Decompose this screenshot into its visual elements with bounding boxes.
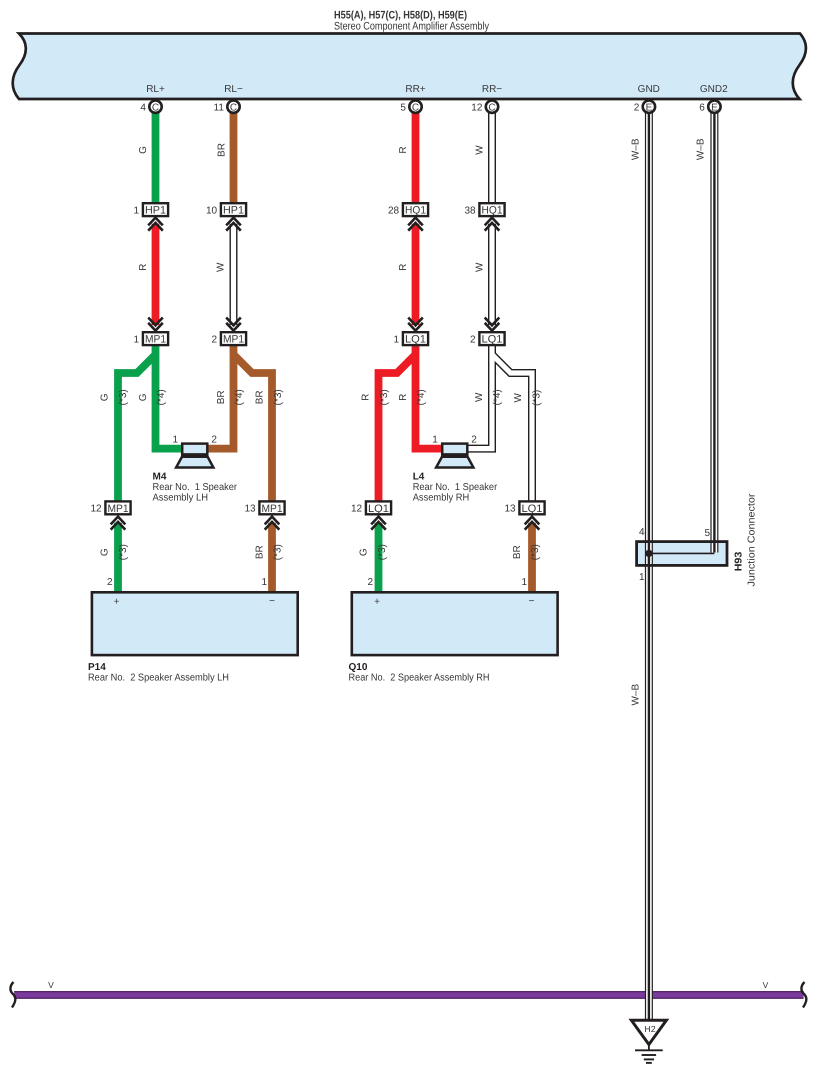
label Q10 bbox=[349, 662, 490, 684]
svg-text:HQ1: HQ1 bbox=[482, 205, 503, 217]
svg-text:H2: H2 bbox=[644, 1024, 655, 1034]
label L4 bbox=[413, 472, 498, 504]
label BR (*3) lower Q10 bbox=[512, 544, 541, 560]
connector LQ1 pin 13 bbox=[504, 501, 544, 514]
svg-text:C: C bbox=[488, 102, 495, 113]
wire R from LQ1 pin1 to speaker L4 pin1 bbox=[416, 345, 445, 449]
wire G from MP1 pin12 to P14 pin2 bbox=[114, 523, 122, 592]
svg-text:W: W bbox=[215, 262, 226, 272]
svg-text:Q10: Q10 bbox=[349, 662, 368, 673]
svg-text:GND2: GND2 bbox=[700, 84, 728, 95]
svg-text:(*3): (*3) bbox=[377, 544, 388, 560]
connector circle C pin 11 (RL-) bbox=[214, 101, 240, 114]
svg-text:RR+: RR+ bbox=[405, 84, 425, 95]
label W-B on GND2 wire bbox=[696, 138, 707, 160]
wire W-B from amplifier GND pin2 to ground H2 bbox=[645, 113, 653, 1022]
connector HP1 pin 1 bbox=[134, 203, 169, 216]
svg-text:Assembly RH: Assembly RH bbox=[413, 492, 470, 503]
stereo component amplifier assembly H55/H57/H58/H59 band bbox=[13, 34, 806, 100]
svg-text:+: + bbox=[114, 596, 120, 607]
wire W-B from amplifier GND2 pin6 to junction connector H93 pin5 bbox=[710, 113, 718, 553]
svg-text:(*3): (*3) bbox=[118, 544, 129, 560]
svg-text:+: + bbox=[374, 596, 380, 607]
chevron above LQ1 pin1 bbox=[408, 318, 423, 331]
wire R branch (*3) to LQ1 pin12 bbox=[379, 355, 416, 502]
svg-text:RR−: RR− bbox=[482, 84, 502, 95]
svg-text:(*3): (*3) bbox=[531, 390, 542, 406]
label R (*4) main bbox=[398, 389, 427, 405]
svg-text:5: 5 bbox=[400, 103, 406, 114]
svg-text:(*3): (*3) bbox=[379, 389, 390, 405]
svg-text:R: R bbox=[398, 394, 409, 401]
label W mid col4 bbox=[474, 262, 485, 272]
connector HP1 pin 10 bbox=[206, 203, 246, 216]
wire BR from amplifier RL- pin11 to HP1 bbox=[230, 113, 238, 204]
label M4 bbox=[153, 472, 238, 504]
svg-text:BR: BR bbox=[255, 390, 266, 404]
label BR on RL- wire bbox=[216, 143, 227, 157]
svg-text:G: G bbox=[100, 548, 111, 556]
label R mid col3 bbox=[398, 264, 409, 271]
svg-text:2: 2 bbox=[367, 577, 373, 588]
svg-text:1: 1 bbox=[134, 335, 140, 346]
amplifier pin labels RL+/RL-/RR+/RR-/GND/GND2 bbox=[146, 84, 728, 95]
svg-text:GND: GND bbox=[638, 84, 660, 95]
wire R from amplifier RR+ pin5 to HQ1 bbox=[412, 113, 420, 204]
connector MP1 pin 12 bbox=[90, 501, 130, 514]
svg-text:Rear No. 2 Speaker Assembly R: Rear No. 2 Speaker Assembly RH bbox=[349, 673, 490, 684]
svg-text:2: 2 bbox=[107, 577, 113, 588]
svg-text:LQ1: LQ1 bbox=[522, 503, 543, 515]
svg-text:5: 5 bbox=[705, 528, 711, 539]
svg-text:2: 2 bbox=[211, 435, 217, 446]
svg-text:LQ1: LQ1 bbox=[405, 334, 426, 346]
chevron above MP1 pin2 bbox=[226, 318, 241, 331]
label G (*3) lower Q10 bbox=[359, 544, 388, 560]
svg-text:4: 4 bbox=[140, 103, 146, 114]
svg-text:Rear No. 2 Speaker Assembly L: Rear No. 2 Speaker Assembly LH bbox=[88, 673, 229, 684]
svg-text:12: 12 bbox=[90, 504, 102, 515]
svg-text:G: G bbox=[138, 393, 149, 401]
svg-text:BR: BR bbox=[512, 545, 523, 559]
speaker L4 Rear No.1 Speaker Assembly RH bbox=[432, 434, 477, 467]
svg-text:(*4): (*4) bbox=[492, 389, 503, 405]
svg-text:Junction Connector: Junction Connector bbox=[747, 493, 758, 587]
wire BR from MP1 pin2 to speaker M4 pin2 bbox=[206, 345, 234, 449]
svg-text:MP1: MP1 bbox=[108, 503, 129, 515]
connector circle E pin 2 (GND) bbox=[634, 101, 655, 114]
svg-text:2: 2 bbox=[471, 435, 477, 446]
svg-text:(*3): (*3) bbox=[530, 544, 541, 560]
label R mid col1 bbox=[138, 264, 149, 271]
connector circle C pin 4 (RL+) bbox=[140, 101, 161, 114]
speaker box Q10 Rear No.2 Speaker Assembly RH bbox=[352, 577, 558, 655]
svg-text:6: 6 bbox=[699, 103, 705, 114]
svg-text:Assembly LH: Assembly LH bbox=[153, 492, 209, 503]
svg-text:BR: BR bbox=[216, 143, 227, 157]
wire G from MP1 pin1 to speaker M4 pin1 bbox=[156, 345, 185, 449]
svg-text:M4: M4 bbox=[153, 472, 167, 483]
label BR (*3) lower bbox=[254, 544, 283, 560]
chevron below MP1 pin12 bbox=[111, 517, 126, 530]
svg-text:LQ1: LQ1 bbox=[482, 334, 503, 346]
connector LQ1 pin 12 bbox=[351, 501, 391, 514]
svg-text:HP1: HP1 bbox=[223, 205, 244, 217]
svg-text:R: R bbox=[398, 146, 409, 153]
svg-text:W: W bbox=[474, 262, 485, 272]
svg-text:G: G bbox=[359, 548, 370, 556]
junction connector H93 bbox=[637, 527, 727, 583]
label P14 bbox=[88, 662, 229, 684]
svg-text:BR: BR bbox=[254, 545, 265, 559]
svg-text:Stereo Component Amplifier Ass: Stereo Component Amplifier Assembly bbox=[334, 21, 489, 33]
violet shield band V bbox=[10, 980, 806, 1008]
wire R from HQ1 to LQ1 bbox=[412, 224, 420, 325]
wire BR from MP1 pin13 to P14 pin1 bbox=[268, 523, 276, 592]
svg-text:W: W bbox=[474, 145, 485, 155]
svg-text:V: V bbox=[763, 980, 769, 990]
svg-text:11: 11 bbox=[214, 103, 225, 114]
label W mid col2 bbox=[215, 262, 226, 272]
svg-text:4: 4 bbox=[639, 527, 645, 538]
svg-text:(*4): (*4) bbox=[234, 389, 245, 405]
svg-text:2: 2 bbox=[212, 335, 218, 346]
svg-text:1: 1 bbox=[173, 434, 179, 445]
svg-text:−: − bbox=[529, 596, 535, 607]
ground H2 bbox=[631, 1020, 666, 1063]
connector MP1 pin 1 bbox=[134, 332, 169, 345]
svg-text:2: 2 bbox=[634, 103, 640, 114]
svg-text:2: 2 bbox=[470, 335, 476, 346]
svg-text:W–B: W–B bbox=[631, 683, 642, 705]
wire G branch (*3) to MP1 pin12 bbox=[118, 355, 156, 502]
wire BR from LQ1 pin13 to Q10 pin1 bbox=[528, 523, 536, 592]
svg-text:MP1: MP1 bbox=[223, 334, 244, 346]
svg-text:(*3): (*3) bbox=[273, 389, 284, 405]
label W-B on GND wire lower bbox=[631, 683, 642, 705]
svg-text:E: E bbox=[711, 102, 718, 113]
label W (*4) main bbox=[474, 389, 503, 405]
svg-text:E: E bbox=[646, 102, 653, 113]
connector circle E pin 6 (GND2) bbox=[699, 101, 720, 114]
svg-text:W: W bbox=[513, 393, 524, 403]
chevron below HP1 pin10 bbox=[226, 218, 241, 231]
wire R from HP1 to MP1 bbox=[152, 224, 160, 325]
wire G from amplifier RL+ pin4 to HP1 bbox=[152, 113, 160, 204]
svg-text:MP1: MP1 bbox=[145, 334, 166, 346]
svg-text:BR: BR bbox=[216, 390, 227, 404]
svg-text:1: 1 bbox=[639, 572, 645, 583]
label G (*3) branch bbox=[100, 389, 129, 405]
svg-text:1: 1 bbox=[261, 577, 267, 588]
svg-text:G: G bbox=[138, 146, 149, 154]
svg-text:13: 13 bbox=[244, 504, 256, 515]
connector circle C pin 5 (RR+) bbox=[400, 101, 421, 114]
svg-text:(*4): (*4) bbox=[416, 389, 427, 405]
svg-text:−: − bbox=[269, 596, 275, 607]
svg-text:1: 1 bbox=[432, 434, 438, 445]
label R on RR+ wire bbox=[398, 146, 409, 153]
svg-text:1: 1 bbox=[521, 577, 527, 588]
svg-text:RL+: RL+ bbox=[146, 84, 165, 95]
chevron below LQ1 pin13 bbox=[525, 517, 540, 530]
svg-text:W–B: W–B bbox=[631, 138, 642, 160]
connector MP1 pin 13 bbox=[244, 501, 284, 514]
svg-text:28: 28 bbox=[388, 206, 400, 217]
svg-text:HQ1: HQ1 bbox=[405, 205, 426, 217]
label R (*3) branch bbox=[361, 389, 390, 405]
wire W from LQ1 pin2 to speaker L4 pin2 and branch (*3) to LQ1 pin13 bbox=[466, 345, 532, 502]
wire W from amplifier RR- pin12 to HQ1 bbox=[488, 113, 496, 204]
svg-text:V: V bbox=[48, 980, 54, 990]
svg-text:38: 38 bbox=[464, 206, 476, 217]
connector HQ1 pin 28 bbox=[388, 203, 428, 216]
speaker M4 Rear No.1 Speaker Assembly LH bbox=[173, 434, 218, 467]
connector HQ1 pin 38 bbox=[464, 203, 504, 216]
label W (*3) branch bbox=[513, 390, 542, 406]
label BR (*3) branch bbox=[255, 389, 284, 405]
svg-text:Rear No. 1 Speaker: Rear No. 1 Speaker bbox=[153, 482, 238, 493]
svg-text:W–B: W–B bbox=[696, 138, 707, 160]
chevron below LQ1 pin12 bbox=[371, 517, 386, 530]
connector LQ1 pin 1 bbox=[394, 332, 429, 345]
svg-text:R: R bbox=[361, 394, 372, 401]
svg-text:G: G bbox=[100, 393, 111, 401]
svg-text:H93: H93 bbox=[734, 551, 745, 571]
svg-text:C: C bbox=[230, 102, 237, 113]
connector MP1 pin 2 bbox=[212, 332, 247, 345]
svg-text:L4: L4 bbox=[413, 472, 425, 483]
svg-text:P14: P14 bbox=[88, 662, 106, 673]
svg-text:C: C bbox=[152, 102, 159, 113]
chevron above LQ1 pin2 bbox=[485, 318, 500, 331]
svg-text:R: R bbox=[138, 264, 149, 271]
svg-text:1: 1 bbox=[134, 206, 140, 217]
label BR (*4) main bbox=[216, 389, 245, 405]
chevron below MP1 pin13 bbox=[265, 517, 280, 530]
label W on RR- wire bbox=[474, 145, 485, 155]
svg-text:(*4): (*4) bbox=[156, 389, 167, 405]
svg-text:12: 12 bbox=[471, 103, 483, 114]
chevron below HQ1 pin28 bbox=[408, 218, 423, 231]
wire BR branch (*3) to MP1 pin13 bbox=[234, 355, 273, 502]
svg-text:1: 1 bbox=[394, 335, 400, 346]
wire G from LQ1 pin12 to Q10 pin2 bbox=[375, 523, 383, 592]
wire W from HQ1 to LQ1 bbox=[488, 224, 496, 325]
chevron below HP1 pin1 bbox=[148, 218, 163, 231]
svg-text:10: 10 bbox=[206, 206, 218, 217]
svg-text:RL−: RL− bbox=[224, 84, 243, 95]
svg-text:R: R bbox=[398, 264, 409, 271]
chevron below HQ1 pin38 bbox=[485, 218, 500, 231]
svg-text:W: W bbox=[474, 392, 485, 402]
svg-text:(*3): (*3) bbox=[273, 544, 284, 560]
svg-text:MP1: MP1 bbox=[262, 503, 283, 515]
svg-text:13: 13 bbox=[504, 504, 516, 515]
svg-text:Rear No. 1 Speaker: Rear No. 1 Speaker bbox=[413, 482, 498, 493]
label G on RL+ wire bbox=[138, 146, 149, 154]
label H93 Junction Connector bbox=[734, 493, 758, 587]
amplifier title bbox=[334, 10, 489, 33]
svg-text:HP1: HP1 bbox=[145, 205, 166, 217]
svg-text:LQ1: LQ1 bbox=[368, 503, 389, 515]
connector circle C pin 12 (RR-) bbox=[471, 101, 498, 114]
svg-text:12: 12 bbox=[351, 504, 363, 515]
chevron above MP1 pin1 bbox=[148, 318, 163, 331]
wire W from HP1 to MP1 (white outline style) bbox=[230, 224, 238, 325]
label G (*4) main bbox=[138, 389, 167, 405]
junction connector H93 box fill bbox=[636, 541, 727, 566]
svg-text:(*3): (*3) bbox=[118, 389, 129, 405]
speaker box P14 Rear No.2 Speaker Assembly LH bbox=[92, 577, 298, 655]
connector LQ1 pin 2 bbox=[470, 332, 505, 345]
svg-text:C: C bbox=[412, 102, 419, 113]
label W-B on GND wire bbox=[631, 138, 642, 160]
label G (*3) lower left bbox=[100, 544, 129, 560]
